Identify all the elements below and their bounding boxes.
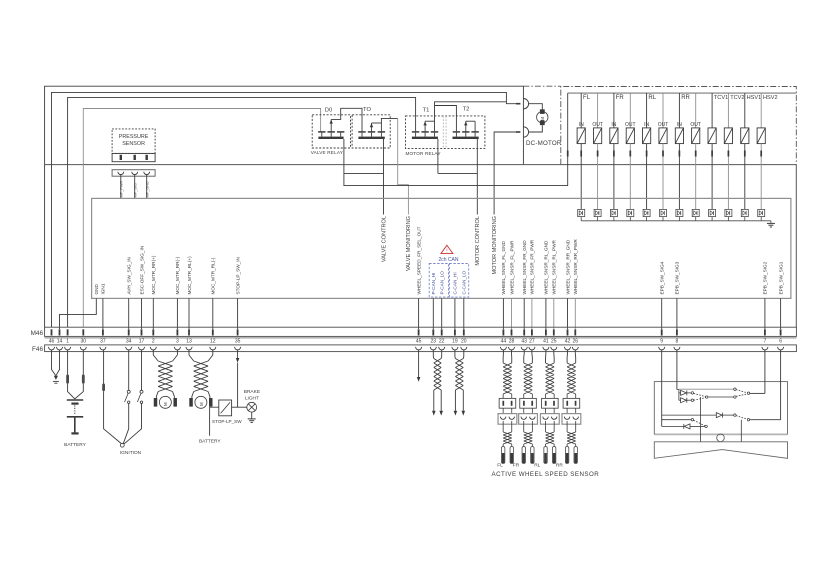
svg-text:M: M xyxy=(199,402,204,406)
svg-text:BRAKE: BRAKE xyxy=(244,389,260,395)
wire pin 17 xyxy=(141,298,143,329)
solenoid valve V6 OUT xyxy=(662,93,664,128)
svg-text:ACTIVE WHEEL SPEED SENSOR: ACTIVE WHEEL SPEED SENSOR xyxy=(492,471,600,478)
svg-text:RL: RL xyxy=(648,95,656,101)
svg-text:44: 44 xyxy=(501,338,507,344)
svg-text:MOC_MTR_RL(-): MOC_MTR_RL(-) xyxy=(211,257,216,294)
wire MOTOR CONTROL from T2 source xyxy=(476,139,478,215)
svg-text:PRESSURE: PRESSURE xyxy=(119,134,149,140)
wire tie D0/T0 source xyxy=(344,172,384,174)
connector pin 9 xyxy=(661,329,663,335)
valve driver Q9 xyxy=(709,209,716,216)
svg-text:9: 9 xyxy=(660,338,663,344)
wire pin 44 xyxy=(502,298,504,329)
wire MOTOR MONITORING xyxy=(494,132,516,215)
wire pin 35 xyxy=(237,298,239,329)
connector pin 19 xyxy=(454,329,456,335)
solenoid valve V11 HSV1 xyxy=(744,93,746,128)
connector pin 13 xyxy=(188,329,190,335)
svg-text:TCV2: TCV2 xyxy=(730,95,744,101)
wheel speed sensor FR xyxy=(523,444,525,447)
wire pin8 into EPB xyxy=(676,350,678,390)
dc motor M1 xyxy=(537,112,548,123)
wire pin14 to chassis ground xyxy=(56,350,60,376)
hydraulic unit common pin xyxy=(567,151,569,157)
svg-text:ESC-OFF_SW_SIG_IN: ESC-OFF_SW_SIG_IN xyxy=(139,246,144,295)
svg-text:WHEEL_SNSR_RL_PWR: WHEEL_SNSR_RL_PWR xyxy=(552,239,557,294)
wire pin 43 xyxy=(523,298,525,329)
svg-text:FL: FL xyxy=(497,463,503,469)
wire pin 23 xyxy=(432,298,434,329)
sensor connector RR female xyxy=(562,414,581,425)
EPB lower contact row xyxy=(662,419,692,421)
connector pin 14 xyxy=(59,329,61,335)
wire D0 source to valve common supply xyxy=(344,93,568,186)
wire W1 pin46 feed / enclosure left xyxy=(45,86,524,327)
svg-text:OUT: OUT xyxy=(690,122,701,128)
svg-text:WHEEL_SNSR_FL_PWR: WHEEL_SNSR_FL_PWR xyxy=(509,240,514,295)
solenoid valve V2 OUT xyxy=(597,93,599,128)
boundary line hydraulic unit bottom xyxy=(45,164,797,166)
transistor T0 xyxy=(358,131,365,133)
wire W2 pin14->none; pin46 to DC-motor(+) xyxy=(52,92,516,327)
svg-text:T1: T1 xyxy=(423,108,430,114)
stop lamp switch STOP-LP_SW xyxy=(219,400,232,416)
svg-text:OUT: OUT xyxy=(592,122,603,128)
connector pin 3 xyxy=(177,329,179,335)
svg-text:8: 8 xyxy=(676,338,679,344)
wire enclosure right drop to M46 xyxy=(795,165,797,328)
wire valve V4 to driver xyxy=(629,157,631,210)
svg-text:IN: IN xyxy=(644,122,649,128)
transistor T2 xyxy=(453,131,460,133)
svg-text:STOP-LP_SW_IN: STOP-LP_SW_IN xyxy=(235,257,240,294)
wire T0 body arrow xyxy=(371,123,373,131)
svg-text:MOTOR MONITORING: MOTOR MONITORING xyxy=(492,216,498,275)
twisted pair RL xyxy=(194,361,208,392)
svg-text:FR: FR xyxy=(513,463,520,469)
sensor connector RR male xyxy=(563,398,580,408)
connector pin 28 xyxy=(511,329,513,335)
svg-text:T2: T2 xyxy=(463,107,470,113)
pressure sensor PS1 box xyxy=(112,129,155,154)
wire sensor pair RR xyxy=(567,350,569,354)
EPB switch box xyxy=(654,382,787,435)
svg-text:34: 34 xyxy=(126,338,132,344)
svg-text:17: 17 xyxy=(139,338,145,344)
svg-text:M46: M46 xyxy=(31,330,44,337)
wire pin 25 xyxy=(553,298,555,329)
motor connector terminal (-) xyxy=(516,131,521,133)
svg-text:P-CAN_LO: P-CAN_LO xyxy=(440,271,445,295)
connector pin 35 xyxy=(237,329,239,335)
pump motor RL xyxy=(192,392,194,399)
svg-text:SENSOR: SENSOR xyxy=(122,141,145,147)
svg-text:RL: RL xyxy=(534,463,540,469)
wire sensor pair RL xyxy=(545,350,547,354)
wire T2 body arrow xyxy=(465,121,467,131)
wire MOC pair RL xyxy=(189,350,194,361)
wire pin 37 xyxy=(102,298,104,329)
svg-text:D0: D0 xyxy=(325,108,332,114)
svg-text:MOC_MTR_RL(+): MOC_MTR_RL(+) xyxy=(187,256,192,295)
CAN warning triangle xyxy=(441,245,453,253)
valve driver Q7 xyxy=(676,209,683,216)
svg-text:WHEEL_SNSR_FR_PWR: WHEEL_SNSR_FR_PWR xyxy=(530,239,535,294)
svg-text:M: M xyxy=(163,402,168,406)
transistor D0 xyxy=(318,131,325,133)
solenoid valve V10 TCV2 xyxy=(727,93,729,128)
svg-text:FL: FL xyxy=(583,95,591,101)
twisted pair RR lower xyxy=(567,432,576,444)
pressure sensor male connector xyxy=(112,153,155,161)
twisted pair RR xyxy=(158,361,172,392)
twisted pair C-CAN xyxy=(455,359,463,391)
wire pin 26 xyxy=(574,298,576,329)
pressure sensor female connector xyxy=(112,170,155,177)
wire valve V11 to driver xyxy=(744,157,746,210)
svg-text:12: 12 xyxy=(210,338,216,344)
svg-text:IGN1: IGN1 xyxy=(101,283,106,294)
solenoid valve V7 RR xyxy=(678,93,680,128)
twisted pair FL lower xyxy=(503,432,512,444)
ignition switch SW1 contact 17 xyxy=(141,350,143,390)
svg-text:HSV2: HSV2 xyxy=(763,95,778,101)
svg-text:MP_GND: MP_GND xyxy=(145,181,149,198)
svg-text:25: 25 xyxy=(551,338,557,344)
motor relay box xyxy=(406,116,485,149)
svg-text:MOC_MTR_RR(+): MOC_MTR_RR(+) xyxy=(151,255,156,294)
connector pin 30 xyxy=(82,329,84,335)
svg-text:HSV1: HSV1 xyxy=(747,95,762,101)
wire T1 body arrow xyxy=(424,121,426,131)
connector pin 20 xyxy=(463,329,465,335)
twisted pair P-CAN xyxy=(434,359,441,391)
svg-text:WHEEL_SNSR_FL_GND: WHEEL_SNSR_FL_GND xyxy=(501,240,506,294)
svg-text:MP_SIG: MP_SIG xyxy=(133,183,137,197)
svg-text:RR: RR xyxy=(556,463,563,469)
svg-text:C-CAN_LO: C-CAN_LO xyxy=(462,270,467,294)
wire T1 drain bus to motor supply xyxy=(435,102,507,132)
wire pin 9 xyxy=(661,298,663,329)
valve driver Q2 xyxy=(594,209,601,216)
svg-text:30: 30 xyxy=(81,338,87,344)
valve relay box T0 xyxy=(352,115,390,148)
wire D0 drain to T0 gate xyxy=(330,119,332,131)
sensor connector FR male xyxy=(520,398,537,408)
ignition common node xyxy=(120,443,124,447)
sensor connector FL female xyxy=(498,414,517,425)
svg-text:VALVE MONITORING: VALVE MONITORING xyxy=(406,216,412,271)
wire valve V8 to driver xyxy=(695,157,697,210)
wire pin 34 xyxy=(128,298,130,329)
valve supply bus xyxy=(568,92,797,94)
twisted pair RR upper xyxy=(567,363,576,394)
connector pin 2 xyxy=(152,329,154,335)
wire valve V10 to driver xyxy=(727,157,729,210)
P-CAN box xyxy=(429,264,448,298)
wire pin 22 xyxy=(441,298,443,329)
wire pin 45 xyxy=(418,298,420,329)
wire valve V6 to driver xyxy=(662,157,664,210)
wire P-CAN arrows xyxy=(433,390,435,411)
svg-text:STOP-LP_SW: STOP-LP_SW xyxy=(212,419,242,424)
wire MP_SIG xyxy=(134,175,136,199)
svg-text:45: 45 xyxy=(416,338,422,344)
wire pin 3 xyxy=(176,298,178,329)
wire motor (-) lead xyxy=(529,125,543,132)
svg-text:2: 2 xyxy=(152,338,155,344)
valve driver Q11 xyxy=(741,209,748,216)
svg-text:WHEEL_SNSR_RR_GND: WHEEL_SNSR_RR_GND xyxy=(565,239,570,294)
connector pin 6 xyxy=(780,329,782,335)
wire valve V3 to driver xyxy=(613,157,615,210)
connector M46 bar xyxy=(45,327,797,336)
chassis ground xyxy=(54,376,58,380)
wire valve V7 to driver xyxy=(678,157,680,210)
solenoid valve V4 OUT xyxy=(629,93,631,128)
valve driver Q10 xyxy=(725,209,732,216)
wire valve V2 to driver xyxy=(597,157,599,210)
twisted pair RL upper xyxy=(546,363,555,394)
boundary dash-dot over motor bay xyxy=(523,85,560,87)
solenoid valve V1 FL xyxy=(580,93,582,128)
svg-text:46: 46 xyxy=(49,338,55,344)
wire pin 19 xyxy=(454,298,456,329)
valve driver Q12 xyxy=(758,209,765,216)
hydraulic unit HCU boundary xyxy=(561,87,797,165)
valve driver Q3 xyxy=(610,209,617,216)
harness divider line xyxy=(45,337,797,339)
wire GND jog to pin 14 xyxy=(60,298,97,329)
wheel speed sensor FL xyxy=(502,444,504,447)
connector pin 25 xyxy=(553,329,555,335)
wheel speed sensor RL xyxy=(545,444,547,447)
wire MP_GND xyxy=(146,175,148,199)
svg-text:2ch CAN: 2ch CAN xyxy=(438,257,458,263)
wire pin 8 xyxy=(676,298,678,329)
svg-text:GND: GND xyxy=(94,283,99,294)
solenoid valve V5 RL xyxy=(646,93,648,128)
svg-text:BATTERY: BATTERY xyxy=(199,439,221,445)
EPB internal stems xyxy=(700,397,702,442)
wire W4 pin30 to valve relay D0 gate (gray) xyxy=(83,109,320,328)
wire pin46 to chassis ground xyxy=(52,350,56,376)
wire C-CAN arrows xyxy=(454,390,456,411)
EPB diode pair xyxy=(678,390,680,401)
connector pin 8 xyxy=(676,329,678,335)
solenoid valve V9 TCV1 xyxy=(711,93,713,128)
svg-text:WHEEL_SPEED_FR_SEL_OUT: WHEEL_SPEED_FR_SEL_OUT xyxy=(416,226,421,294)
wire pin1 to battery (+) with fuse F1 xyxy=(67,350,69,375)
svg-text:EPB_SW_SIG4: EPB_SW_SIG4 xyxy=(660,261,665,294)
wire pin 20 xyxy=(463,298,465,329)
svg-text:13: 13 xyxy=(186,338,192,344)
svg-text:EPB_SW_SIG1: EPB_SW_SIG1 xyxy=(778,261,783,294)
connector pin 26 xyxy=(574,329,576,335)
wire pin 41 xyxy=(545,298,547,329)
connector pin 12 xyxy=(212,329,214,335)
svg-text:IN: IN xyxy=(677,122,682,128)
C-CAN box xyxy=(449,264,468,298)
connector pin 44 xyxy=(503,329,505,335)
transistor T1 xyxy=(412,131,419,133)
wire pin 28 xyxy=(511,298,513,329)
wire MOC pair RR xyxy=(153,350,158,361)
svg-text:M: M xyxy=(540,117,545,121)
svg-text:3: 3 xyxy=(176,338,179,344)
connector pin 7 xyxy=(764,329,766,335)
wire battery to stop lamp switch xyxy=(210,407,219,436)
connector pin 34 xyxy=(128,329,130,335)
wire pin 42 xyxy=(567,298,569,329)
connector pin 27 xyxy=(531,329,533,335)
svg-text:MOC_MTR_RR(-): MOC_MTR_RR(-) xyxy=(175,256,180,294)
connector pin 37 xyxy=(102,329,104,335)
sensor connector RL male xyxy=(542,398,559,408)
wire pin35 stop lamp switch xyxy=(237,350,239,358)
svg-text:EPB_SW_SIG3: EPB_SW_SIG3 xyxy=(675,261,680,294)
wire VALVE MONITORING (gray) xyxy=(398,118,409,214)
wire T2 gate feed xyxy=(435,106,457,132)
valve driver Q8 xyxy=(692,209,699,216)
wire T0 drain to valve monitoring xyxy=(381,118,397,131)
wire pin45 speed out xyxy=(418,350,420,377)
svg-text:28: 28 xyxy=(509,338,515,344)
svg-text:EPB_SW_SIG2: EPB_SW_SIG2 xyxy=(763,261,768,294)
pump motor RR xyxy=(156,392,158,399)
svg-text:7: 7 xyxy=(764,338,767,344)
connector pin 1 xyxy=(67,329,69,335)
driver ground bus xyxy=(581,220,771,222)
svg-text:FR: FR xyxy=(616,95,625,101)
svg-text:LIGHT: LIGHT xyxy=(245,396,259,402)
wire sensor pair FL xyxy=(502,350,504,354)
wire pin37 ignition feed with fuse F3 xyxy=(103,350,105,384)
sensor connector FL male xyxy=(499,398,516,408)
svg-text:P-CAN_HI: P-CAN_HI xyxy=(431,273,436,295)
connector pin 41 xyxy=(545,329,547,335)
wire pin 2 xyxy=(152,298,154,329)
wire W3 pin1 battery to motor relay T1 gate xyxy=(68,97,416,327)
connector pin 46 xyxy=(51,329,53,335)
wire valve V12 to driver xyxy=(760,157,762,210)
wire tie T1/T2 source xyxy=(437,139,439,173)
battery B1 xyxy=(67,399,83,401)
wire pin 27 xyxy=(531,298,533,329)
svg-text:IGNITION: IGNITION xyxy=(120,450,142,456)
svg-text:WHEEL_SNSR_RR_PWR: WHEEL_SNSR_RR_PWR xyxy=(573,239,578,295)
svg-text:1: 1 xyxy=(66,338,69,344)
solenoid valve V3 FR xyxy=(613,93,615,128)
valve driver Q4 xyxy=(627,209,634,216)
valve driver Q1 xyxy=(578,209,585,216)
ECU box xyxy=(92,198,791,298)
twisted pair FL upper xyxy=(503,363,512,394)
svg-text:TCV1: TCV1 xyxy=(714,95,728,101)
svg-text:RR: RR xyxy=(681,95,690,101)
ignition switch SW1 contact 34 xyxy=(128,350,130,390)
svg-text:14: 14 xyxy=(57,338,63,344)
connector F46 bar xyxy=(45,345,797,352)
EPB switch contact row 2 xyxy=(694,393,706,396)
wire pin 12 xyxy=(212,298,214,329)
wire valve V9 to driver xyxy=(711,157,713,210)
svg-text:F46: F46 xyxy=(32,346,43,353)
svg-text:DC-MOTOR: DC-MOTOR xyxy=(526,140,562,147)
svg-text:20: 20 xyxy=(461,338,467,344)
svg-text:IN: IN xyxy=(611,122,616,128)
EPB switch contact row 1 xyxy=(679,388,734,390)
valve relay box D0 xyxy=(312,115,350,148)
wire MP_PWR xyxy=(120,175,122,199)
svg-text:MOTOR RELAY: MOTOR RELAY xyxy=(406,151,441,156)
wire sensor pair FR xyxy=(523,350,525,354)
svg-text:MP_PWR: MP_PWR xyxy=(119,180,123,197)
valve driver Q5 xyxy=(643,209,650,216)
svg-text:26: 26 xyxy=(573,338,579,344)
EPB lever base xyxy=(654,442,787,459)
connector pin 43 xyxy=(523,329,525,335)
wire pin6 to EPB contact xyxy=(750,419,781,421)
svg-text:!: ! xyxy=(446,249,447,255)
svg-text:AVH_SW_SIG_IN: AVH_SW_SIG_IN xyxy=(127,257,132,294)
svg-text:41: 41 xyxy=(543,338,549,344)
sensor connector FR female xyxy=(519,414,538,425)
EPB middle diode xyxy=(662,414,717,416)
svg-text:OUT: OUT xyxy=(625,122,636,128)
svg-text:VALVE CONTROL: VALVE CONTROL xyxy=(381,216,387,262)
wire pin9 into EPB xyxy=(661,350,663,427)
connector pin 45 xyxy=(418,329,420,335)
wire pin 7 xyxy=(764,298,766,329)
svg-text:WHEEL_SNSR_FR_GND: WHEEL_SNSR_FR_GND xyxy=(522,240,527,295)
svg-text:27: 27 xyxy=(529,338,535,344)
svg-text:TO: TO xyxy=(363,107,371,113)
sensor connector RL female xyxy=(540,414,559,425)
svg-text:BATTERY: BATTERY xyxy=(64,442,86,448)
svg-text:C-CAN_HI: C-CAN_HI xyxy=(453,272,458,294)
wire motor (+) lead xyxy=(529,104,543,110)
connector pin 17 xyxy=(141,329,143,335)
svg-text:37: 37 xyxy=(100,338,106,344)
wire switch to brake light xyxy=(232,406,247,408)
svg-text:35: 35 xyxy=(235,338,241,344)
motor connector terminal (+) xyxy=(516,103,521,105)
connector pin 42 xyxy=(567,329,569,335)
svg-text:VALVE RELAY: VALVE RELAY xyxy=(311,150,343,155)
wire valve V5 to driver xyxy=(646,157,648,210)
svg-text:23: 23 xyxy=(431,338,437,344)
wire valve V1 to driver xyxy=(580,157,582,210)
svg-text:19: 19 xyxy=(452,338,458,344)
ground brake light xyxy=(251,412,253,419)
solenoid valve V12 HSV2 xyxy=(760,93,762,128)
wire pin 13 xyxy=(188,298,190,329)
valve driver Q6 xyxy=(660,209,667,216)
svg-text:WHEEL_SNSR_RL_GND: WHEEL_SNSR_RL_GND xyxy=(544,240,549,295)
wire pin30 to battery with fuse F2 xyxy=(82,350,84,375)
wire pin 6 xyxy=(780,298,782,329)
wire CAN pair C-CAN xyxy=(454,350,456,357)
twisted pair FR lower xyxy=(524,432,533,444)
EPB lower diode xyxy=(662,425,684,427)
connector pin 22 xyxy=(441,329,443,335)
EPB pivot circle xyxy=(717,434,725,442)
svg-text:OUT: OUT xyxy=(658,122,669,128)
svg-text:43: 43 xyxy=(521,338,527,344)
svg-text:IN: IN xyxy=(579,122,584,128)
